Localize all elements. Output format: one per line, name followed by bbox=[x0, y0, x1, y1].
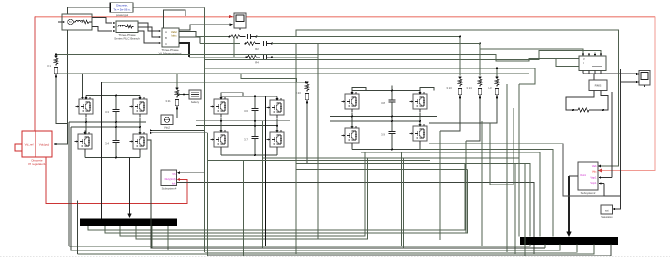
left bar output tap 2 bbox=[105, 170, 468, 234]
Scopes left output wire bbox=[569, 175, 578, 177]
wire powergui feed bbox=[68, 7, 205, 14]
controller block bbox=[161, 170, 177, 186]
cluster 2 mid rails bbox=[196, 120, 290, 122]
wire measurement left exit bbox=[539, 58, 579, 66]
bus creator bar left bbox=[80, 219, 177, 227]
svg-text:Series RLC Branch: Series RLC Branch bbox=[114, 37, 140, 41]
cluster 3 cap top stub bbox=[391, 86, 393, 91]
wires RLC to V-I measurement bbox=[142, 23, 158, 31]
bottom feed line 6 bbox=[208, 245, 612, 256]
svg-text:Out1: Out1 bbox=[580, 173, 586, 177]
svg-text:R2: R2 bbox=[255, 47, 259, 51]
cluster 3 loop T10 bbox=[420, 88, 434, 95]
bottom feed line 4 bbox=[205, 245, 578, 253]
V-I output wire to Scope1 bbox=[179, 25, 230, 30]
red wire regulator output to controller bbox=[46, 157, 187, 203]
capacitor C6 string bbox=[254, 96, 256, 108]
wire arrow into RL L23 top bbox=[297, 81, 306, 83]
cluster 3 top rail bbox=[352, 90, 420, 92]
long vertical wire I bbox=[295, 44, 297, 255]
wire y=143.7 to scopes column bbox=[429, 143, 563, 145]
Scopes input wires bbox=[600, 177, 612, 179]
DC source block bbox=[161, 115, 173, 125]
vertical connector wire x=234 bbox=[233, 37, 235, 58]
MOSFET T10 bbox=[410, 91, 428, 113]
wire measurement to RMS bbox=[593, 74, 595, 80]
red wire loop at regulator left bbox=[15, 144, 22, 151]
V-I top loop wire bbox=[164, 10, 186, 28]
svg-text:Subsystem2: Subsystem2 bbox=[581, 191, 596, 195]
mid horizontal wire K bbox=[208, 160, 431, 162]
svg-text:Vh: Vh bbox=[172, 172, 176, 176]
arrow into measurement top port 4 bbox=[600, 54, 602, 57]
left bar output tap 1 bbox=[88, 163, 465, 230]
display block bbox=[639, 71, 650, 88]
red wire arrow into Scope1 bbox=[229, 15, 233, 18]
svg-text:Saturation: Saturation bbox=[601, 216, 613, 219]
long vertical wire D bbox=[204, 7, 206, 252]
mux arrow left bbox=[129, 158, 131, 216]
bottom feed line 1 bbox=[69, 245, 530, 247]
long vertical wire A bbox=[70, 127, 72, 250]
wire bus B4 to RL14 feed bbox=[272, 44, 480, 76]
RL branch L21 bbox=[176, 74, 178, 88]
RL branch L14 bbox=[478, 77, 482, 99]
RMS block bbox=[589, 80, 607, 91]
red reference wire right side bbox=[600, 17, 655, 171]
measurement block bottom stubs bbox=[583, 71, 601, 74]
cluster 2 bottom rail bbox=[221, 154, 277, 156]
svg-text:V: V bbox=[583, 57, 585, 61]
controller input wire top bbox=[179, 172, 204, 174]
mid horizontal wire N y=163.4 bbox=[296, 163, 530, 236]
cluster 1 bottom rail bbox=[85, 157, 140, 159]
red wire left vertical to regulator bbox=[34, 17, 36, 131]
svg-text:3 1: 3 1 bbox=[47, 64, 51, 68]
arrow into measurement top port 2 bbox=[588, 54, 590, 57]
V-I pass-through wires to buses bbox=[179, 32, 196, 37]
left bar output tap 4 bbox=[136, 158, 368, 239]
wire bus B2 to RL13 feed bbox=[257, 37, 461, 76]
voltage regulator block (red) bbox=[22, 131, 52, 157]
left bar output tap 3 bbox=[120, 152, 365, 236]
svg-text:3.4: 3.4 bbox=[105, 142, 109, 146]
Scope1 block bbox=[234, 13, 246, 30]
cluster 1 top rail bbox=[86, 95, 140, 97]
arrow into Scopes port 1 bbox=[598, 165, 601, 168]
svg-text:3 21: 3 21 bbox=[165, 99, 171, 103]
long vertical wire A2 bbox=[68, 122, 70, 246]
vertical wire x=507 bbox=[506, 84, 508, 252]
svg-text:Vd_ref: Vd_ref bbox=[25, 143, 34, 147]
box edge verticals lower middle bbox=[402, 131, 467, 248]
vertical wire x=482 upper bbox=[481, 121, 483, 246]
thick wire x=563 bbox=[563, 144, 604, 196]
svg-text:3.8: 3.8 bbox=[381, 101, 385, 105]
capacitor C3 string bbox=[115, 96, 117, 110]
source right port wires bbox=[92, 18, 112, 24]
svg-text:Ts = 5e-06 s.: Ts = 5e-06 s. bbox=[113, 7, 130, 11]
svg-text:Iabc: Iabc bbox=[171, 34, 177, 38]
bus wire B8 y=59.6 bbox=[205, 51, 602, 60]
svg-text:RMS: RMS bbox=[595, 84, 602, 88]
bus wire B9 y=68.3 bbox=[205, 68, 536, 84]
bus wire B3 branch to measurement bbox=[480, 44, 583, 55]
RL branch L13 bbox=[458, 77, 462, 99]
three-phase measurement block right bbox=[579, 56, 606, 71]
arrow into measurement top port 3b bbox=[594, 54, 596, 57]
svg-text:Vdc: Vdc bbox=[592, 170, 597, 174]
svg-text:Vab: Vab bbox=[592, 164, 597, 168]
vertical wire pair right bbox=[618, 33, 620, 166]
wire tap to RL branch L23 bbox=[102, 74, 297, 83]
svg-text:3 14: 3 14 bbox=[466, 86, 472, 90]
bottom feed line 2 bbox=[544, 245, 546, 248]
MOSFET T9 bbox=[342, 91, 360, 113]
cluster 2 top rail bbox=[221, 95, 277, 97]
capacitor C8 string bbox=[391, 91, 393, 100]
page boundary dotted bbox=[0, 256, 670, 258]
RL branch L3 bbox=[496, 68, 498, 77]
RL branch left (source neutral) bbox=[54, 56, 58, 78]
wire to display block bbox=[601, 73, 637, 75]
RL branch L23 bbox=[305, 82, 309, 104]
bus wire B1 y=33 bbox=[296, 30, 619, 166]
long vertical wire E bbox=[207, 133, 209, 256]
MOSFET T4 bbox=[130, 131, 148, 153]
cluster 3 loop T9 bbox=[352, 88, 366, 95]
svg-text:3.9: 3.9 bbox=[381, 133, 385, 137]
junction left RL tap bbox=[55, 53, 57, 55]
three-phase series RLC branch block bbox=[113, 21, 142, 33]
Scopes subsystem block bbox=[578, 162, 598, 190]
svg-text:Vcp1: Vcp1 bbox=[590, 181, 597, 185]
bus wire B2 y=36.5 with RC snubber branch R1 bbox=[196, 36, 229, 38]
svg-text:L3: L3 bbox=[489, 86, 492, 90]
svg-text:3 13: 3 13 bbox=[446, 86, 452, 90]
mid horizontal wire L y=152.3 bbox=[361, 152, 540, 236]
svg-text:PI regulator1: PI regulator1 bbox=[28, 162, 46, 166]
wire C1 output down long bbox=[147, 140, 545, 248]
gate feed wires under DC source bbox=[150, 130, 204, 132]
svg-text:powergui: powergui bbox=[116, 13, 129, 17]
cluster 1 mid rails bbox=[69, 121, 146, 123]
MOSFET T1 bbox=[76, 96, 94, 118]
bottom feed line 3 bbox=[71, 245, 560, 251]
source block left vertical feeder bbox=[56, 30, 68, 144]
vertical step wire x=525 bbox=[524, 163, 526, 255]
saturation small block bbox=[601, 205, 613, 214]
bottom feed line 5 bbox=[78, 245, 595, 254]
cluster 3 bottom rail bbox=[352, 149, 420, 151]
left bar output tap 6 bbox=[167, 226, 169, 250]
MOSFET T7 bbox=[211, 129, 229, 151]
red reference wire top bbox=[35, 16, 655, 18]
arrow into measurement top port 1 bbox=[582, 54, 584, 57]
svg-text:sat: sat bbox=[605, 209, 609, 213]
cluster 3 mid rails bbox=[330, 116, 437, 118]
arrow into Scope1 lower port bbox=[230, 23, 234, 26]
bus creator bar right bbox=[520, 237, 618, 245]
svg-text:battery: battery bbox=[191, 100, 200, 104]
red wire arrow into Scopes bbox=[598, 169, 603, 173]
svg-text:A: A bbox=[165, 30, 167, 34]
wire loop x=490 bbox=[490, 123, 514, 185]
long vertical wire H bbox=[265, 96, 267, 246]
three-phase V-I measurement block bbox=[159, 28, 179, 47]
svg-text:V-I Measurement: V-I Measurement bbox=[159, 52, 182, 56]
cluster 1 drain feed wire bbox=[82, 74, 84, 98]
long vertical wire F bbox=[243, 161, 245, 256]
wire battery to RL L21 bbox=[177, 94, 189, 96]
bus wire B6 y=54.8 long bbox=[56, 54, 589, 61]
bus wire B10 y=73.7 long bbox=[56, 73, 529, 75]
MOSFET T12 bbox=[410, 123, 428, 145]
mid horizontal wire y=169.5 bbox=[296, 169, 468, 171]
svg-text:3.6: 3.6 bbox=[244, 109, 248, 113]
MOSFET T3 bbox=[75, 131, 93, 153]
vertical wire x=513.7 bbox=[513, 108, 515, 185]
long vertical wire x=519 bbox=[518, 84, 520, 237]
svg-text:R4: R4 bbox=[255, 61, 259, 65]
thick wire V-I to bus bbox=[179, 43, 189, 57]
bus wire B7 y=57.2 with RC snubber branch R4 bbox=[189, 56, 246, 58]
svg-text:B: B bbox=[165, 36, 167, 40]
MOSFET T11 bbox=[342, 125, 360, 147]
battery block B1 bbox=[189, 90, 201, 99]
MOSFET T8 bbox=[267, 129, 285, 151]
svg-text:3.7: 3.7 bbox=[244, 138, 248, 142]
bus wire B4 y=43.5 with RC snubber branch R2 bbox=[200, 43, 240, 45]
left bar output tap 5 bbox=[151, 226, 153, 248]
svg-text:C: C bbox=[165, 42, 167, 46]
controller output wire long bbox=[177, 183, 535, 255]
mid horizontal wire M y=158 bbox=[263, 157, 520, 159]
svg-text:Subsystem4: Subsystem4 bbox=[162, 187, 177, 191]
powergui block bbox=[109, 3, 133, 13]
svg-text:Vdc(pu): Vdc(pu) bbox=[39, 143, 50, 147]
wire cluster 3 rail to right bar bbox=[420, 150, 553, 237]
vertical step wire x=515 bbox=[514, 163, 516, 254]
red arrow into controller bbox=[177, 178, 181, 181]
MOSFET T5 bbox=[211, 96, 229, 118]
svg-text:Vdc2: Vdc2 bbox=[164, 126, 171, 130]
mux arrow right (thick) bbox=[568, 176, 570, 234]
measurement top port 3 stub bbox=[594, 53, 596, 56]
svg-text:3.3: 3.3 bbox=[105, 110, 109, 114]
long vertical wire G bbox=[262, 121, 264, 248]
three-phase source block bbox=[58, 14, 92, 30]
svg-text:Vap1: Vap1 bbox=[590, 175, 597, 179]
long vertical wire B bbox=[77, 201, 79, 254]
long vertical wire x=318 bbox=[317, 44, 319, 240]
long vertical wire C bbox=[101, 82, 103, 218]
load resistor loop bbox=[566, 91, 594, 111]
MOSFET T2 bbox=[130, 96, 148, 118]
svg-text:Duty(ind): Duty(ind) bbox=[165, 177, 176, 181]
MOSFET T6 bbox=[267, 97, 285, 119]
